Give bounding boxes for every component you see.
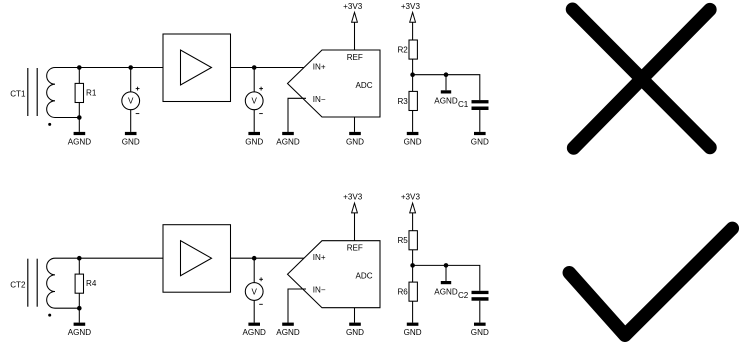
transformer CT2 core line 2 xyxy=(36,259,38,307)
op-amp amplifier triangle (row 1) xyxy=(181,50,212,85)
voltmeter V3 xyxy=(245,277,263,304)
resistor R4 xyxy=(75,274,83,293)
svg-text:AGND: AGND xyxy=(243,328,267,337)
wire coil top to amplifier input (row 1) xyxy=(55,67,163,69)
wire amplifier output to ADC IN+ (row 2) xyxy=(231,257,306,259)
ground AGND under R1 xyxy=(68,132,92,146)
svg-text:R1: R1 xyxy=(86,88,97,97)
svg-text:IN−: IN− xyxy=(313,95,326,104)
svg-text:AGND: AGND xyxy=(434,97,458,106)
svg-text:GND: GND xyxy=(245,137,263,146)
svg-text:R2: R2 xyxy=(397,45,408,54)
ground AGND on divider output (row 1) xyxy=(434,90,458,105)
svg-text:GND: GND xyxy=(471,328,489,337)
svg-text:+3V3: +3V3 xyxy=(343,193,363,202)
voltmeter V1 xyxy=(122,87,140,114)
svg-text:IN+: IN+ xyxy=(313,253,326,262)
wire voltmeter V1 bottom stub xyxy=(130,110,132,132)
resistor R6 xyxy=(409,282,417,301)
svg-text:+3V3: +3V3 xyxy=(401,2,421,11)
svg-text:AGND: AGND xyxy=(68,328,92,337)
node voltmeter V2 tap junction xyxy=(252,65,257,70)
svg-text:V: V xyxy=(128,97,134,106)
wire AGND stub (row 2) xyxy=(445,265,447,281)
wire C2 to GND xyxy=(479,301,481,323)
node divider junction (row 1) xyxy=(410,72,415,77)
ground GND under voltmeter V2 xyxy=(245,132,263,146)
wire amplifier output to ADC IN+ (row 1) xyxy=(231,67,306,69)
wire divider junction to C1 xyxy=(413,75,480,100)
ground GND under voltmeter V1 xyxy=(122,132,140,146)
wire coil bottom to R4 bottom (row 2) xyxy=(55,307,79,309)
transformer CT1 core line 1 xyxy=(27,68,29,116)
wire voltmeter V1 top stub xyxy=(130,68,132,92)
svg-text:AGND: AGND xyxy=(434,287,458,296)
wire +3V3 to R5 xyxy=(412,213,414,231)
wire R6 to GND xyxy=(412,301,414,322)
node AGND stub junction (row 1) xyxy=(444,72,449,77)
wire +3V3 to ADC REF (row 1) xyxy=(354,22,356,50)
wire +3V3 to ADC REF (row 2) xyxy=(354,213,356,241)
transformer CT2 polarity dot xyxy=(48,314,51,317)
ground GND under R6 xyxy=(404,323,422,337)
power +3V3 at ADC REF (row 1) xyxy=(343,2,363,22)
svg-text:CT2: CT2 xyxy=(10,280,26,289)
wire coil bottom to R1 bottom (row 1) xyxy=(55,117,79,119)
power +3V3 at divider (row 1) xyxy=(401,2,421,22)
svg-text:C2: C2 xyxy=(458,291,469,300)
wire divider junction to C2 xyxy=(413,265,480,290)
ADC block U1 xyxy=(288,50,381,117)
wire AGND stub (row 1) xyxy=(445,75,447,91)
wire R4 bottom to AGND xyxy=(78,308,80,322)
svg-text:AGND: AGND xyxy=(276,328,300,337)
wire R1 bottom stub xyxy=(78,103,80,118)
svg-text:IN+: IN+ xyxy=(313,63,326,72)
svg-text:GND: GND xyxy=(471,137,489,146)
svg-text:REF: REF xyxy=(347,53,363,62)
wire ADC IN&#8722; to AGND (row 1) xyxy=(288,98,306,132)
svg-text:V: V xyxy=(251,97,257,106)
svg-text:+3V3: +3V3 xyxy=(401,193,421,202)
right-mark check xyxy=(569,228,732,335)
capacitor C2 xyxy=(472,291,489,301)
resistor R2 xyxy=(409,40,417,59)
node R4 bottom junction xyxy=(77,306,82,311)
svg-text:R4: R4 xyxy=(86,279,97,288)
ground AGND at ADC IN&#8722; (row 1) xyxy=(276,132,300,146)
svg-text:GND: GND xyxy=(346,137,364,146)
node R1 bottom junction xyxy=(77,115,82,120)
svg-text:R6: R6 xyxy=(397,288,408,297)
svg-text:AGND: AGND xyxy=(276,137,300,146)
transformer CT1 secondary winding xyxy=(47,68,55,118)
svg-text:R5: R5 xyxy=(397,236,408,245)
wire voltmeter V2 bottom stub xyxy=(253,110,255,132)
wire R1 top stub xyxy=(78,68,80,84)
node R4 top junction xyxy=(77,256,82,261)
wire R2 to R3 xyxy=(412,59,414,91)
transformer CT2 core line 1 xyxy=(27,259,29,307)
capacitor C1 xyxy=(472,100,489,110)
ground GND under C2 xyxy=(471,323,489,337)
wire R1 bottom to AGND xyxy=(78,118,80,132)
ground AGND under R4 xyxy=(68,323,92,337)
resistor R5 xyxy=(409,231,417,250)
svg-text:C1: C1 xyxy=(458,100,469,109)
resistor R3 xyxy=(409,91,417,110)
svg-text:GND: GND xyxy=(122,137,140,146)
svg-text:GND: GND xyxy=(346,328,364,337)
wire voltmeter V3 top stub xyxy=(253,258,255,282)
svg-text:V: V xyxy=(251,287,257,296)
transformer CT1 core line 2 xyxy=(36,68,38,116)
transformer CT2 secondary winding xyxy=(47,258,55,308)
wrong-mark X stroke 1 xyxy=(573,9,711,147)
wire R4 top stub xyxy=(78,258,80,274)
wrong-mark X stroke 2 xyxy=(574,10,710,148)
svg-text:R3: R3 xyxy=(397,97,408,106)
node R1 top junction xyxy=(77,65,82,70)
node voltmeter V1 tap junction xyxy=(128,65,133,70)
ground AGND on divider output (row 2) xyxy=(434,281,458,296)
power +3V3 at ADC REF (row 2) xyxy=(343,193,363,213)
svg-text:REF: REF xyxy=(347,244,363,253)
wire +3V3 to R2 xyxy=(412,22,414,40)
wire ADC GND stub (row 1) xyxy=(354,117,356,132)
node AGND stub junction (row 2) xyxy=(444,263,449,268)
ground AGND at ADC IN&#8722; (row 2) xyxy=(276,323,300,337)
svg-text:ADC: ADC xyxy=(356,272,373,281)
svg-text:AGND: AGND xyxy=(68,137,92,146)
svg-text:ADC: ADC xyxy=(356,81,373,90)
svg-text:CT1: CT1 xyxy=(10,90,26,99)
svg-text:GND: GND xyxy=(404,137,422,146)
svg-text:GND: GND xyxy=(404,328,422,337)
ground GND under C1 xyxy=(471,132,489,146)
ground AGND under voltmeter V3 xyxy=(243,323,267,337)
wire ADC GND stub (row 2) xyxy=(354,308,356,323)
ground GND under ADC (row 2) xyxy=(346,323,364,337)
resistor R1 xyxy=(75,83,83,102)
svg-text:+3V3: +3V3 xyxy=(343,2,363,11)
op-amp amplifier box (row 2) xyxy=(163,225,231,293)
svg-text:IN−: IN− xyxy=(313,286,326,295)
wire R5 to R6 xyxy=(412,250,414,282)
wire voltmeter V2 top stub xyxy=(253,68,255,92)
node divider junction (row 2) xyxy=(410,263,415,268)
op-amp amplifier box (row 1) xyxy=(163,34,231,102)
wire coil top to amplifier input (row 2) xyxy=(55,257,163,259)
op-amp amplifier triangle (row 2) xyxy=(181,241,212,276)
node voltmeter V3 tap junction xyxy=(252,256,257,261)
voltmeter V2 xyxy=(245,87,263,114)
wire ADC IN&#8722; to AGND (row 2) xyxy=(288,289,306,323)
wire C1 to GND xyxy=(479,110,481,132)
wire voltmeter V3 bottom stub xyxy=(253,300,255,322)
power +3V3 at divider (row 2) xyxy=(401,193,421,213)
ground GND under ADC (row 1) xyxy=(346,132,364,146)
wire R4 bottom stub xyxy=(78,293,80,308)
wire R3 to GND xyxy=(412,111,414,132)
ground GND under R3 xyxy=(404,132,422,146)
transformer CT1 polarity dot xyxy=(48,123,51,126)
ADC block U2 xyxy=(288,241,381,308)
